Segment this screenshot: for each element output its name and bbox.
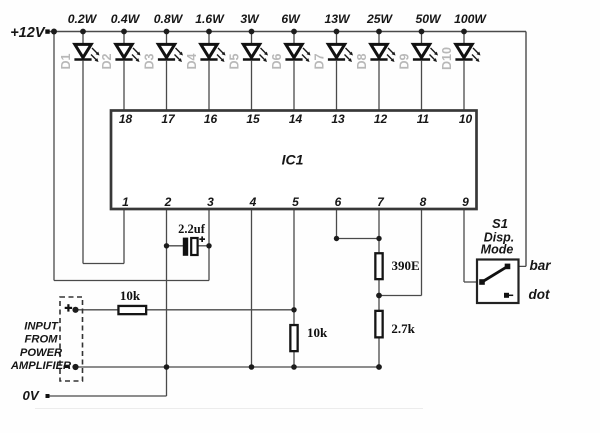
node +12V terminal <box>45 29 49 33</box>
wire D1 cathode down left side of IC <box>82 61 84 264</box>
svg-text:25W: 25W <box>366 12 394 26</box>
svg-text:50W: 50W <box>415 12 442 26</box>
wire pin 8 column down <box>421 209 423 296</box>
svg-text:14: 14 <box>289 112 303 126</box>
svg-text:Mode: Mode <box>481 243 514 257</box>
wire D8 cathode to IC pin <box>378 61 380 110</box>
LED D5 <box>243 32 268 63</box>
wire 0V up to ground rail <box>166 367 168 396</box>
node ground rail (bottom) <box>76 366 380 368</box>
node junction (294,31.5) <box>291 29 297 35</box>
svg-text:3W: 3W <box>240 12 260 26</box>
switch S1 dot contact <box>504 293 509 298</box>
input - terminal <box>64 366 70 368</box>
node junction (124,31.5) <box>121 29 127 35</box>
wire input + signal line to pin 5 node <box>76 309 295 311</box>
wire pin 6 to pin 7 link <box>337 238 380 240</box>
svg-text:dot: dot <box>529 287 550 302</box>
svg-text:1: 1 <box>122 195 129 209</box>
wire +12V branch left vertical down to pin 3 net <box>53 32 55 281</box>
LED D6 <box>285 32 310 63</box>
node junction (421.5,31.5) <box>419 29 425 35</box>
svg-text:D10: D10 <box>440 47 454 70</box>
node junction (379,367) <box>376 364 382 370</box>
node junction (209,31.5) <box>206 29 212 35</box>
svg-text:8: 8 <box>420 195 427 209</box>
wire pin 5 column down to ground rail <box>293 209 295 367</box>
node junction (209,245.8) <box>206 243 211 248</box>
svg-text:0.4W: 0.4W <box>111 12 141 26</box>
wire D3 cathode to IC pin <box>166 61 168 110</box>
wire pin 4 column down to ground rail <box>251 209 253 367</box>
switch S1 bar contact <box>505 264 511 270</box>
node +12V supply rail (top) <box>46 31 526 33</box>
node 0V terminal <box>46 394 50 398</box>
svg-text:5: 5 <box>292 195 299 209</box>
svg-text:D5: D5 <box>228 53 242 69</box>
wire pin 9 to switch common <box>464 281 477 283</box>
svg-text:13W: 13W <box>324 12 351 26</box>
switch S1 common contact <box>479 279 485 285</box>
svg-text:+12V: +12V <box>10 25 46 41</box>
capacitor C1 2.2uf (electrolytic) <box>167 236 210 255</box>
svg-text:D3: D3 <box>143 53 157 69</box>
wire pin 3 column (V+) from IC down through capacitor node <box>208 209 210 281</box>
wire +12V branch horizontal to pin 3 column <box>54 280 209 282</box>
svg-text:D2: D2 <box>100 53 114 69</box>
svg-text:12: 12 <box>374 112 388 126</box>
svg-text:2.7k: 2.7k <box>391 321 415 336</box>
svg-text:INPUT: INPUT <box>24 321 59 333</box>
svg-text:15: 15 <box>246 112 260 126</box>
svg-text:6W: 6W <box>281 12 301 26</box>
svg-text:1.6W: 1.6W <box>195 12 225 26</box>
node junction (464,31.5) <box>461 29 467 35</box>
svg-text:D6: D6 <box>270 53 284 69</box>
switch S1 Disp. Mode body <box>477 260 519 304</box>
node junction (251.5,31.5) <box>249 29 255 35</box>
node junction (379,238.5) <box>376 236 381 241</box>
svg-text:FROM: FROM <box>25 334 59 346</box>
wire +12V rail down right side to switch bar contact <box>525 32 527 267</box>
wire pin 2 column down to ground rail <box>166 209 168 367</box>
svg-text:10k: 10k <box>120 288 141 303</box>
node junction (54,31.5) <box>51 29 57 35</box>
LED D8 <box>370 32 395 63</box>
wire switch bar contact to +12V rail <box>508 265 527 267</box>
node junction (294,367) <box>291 364 297 370</box>
svg-text:0.2W: 0.2W <box>68 12 98 26</box>
wire D10 cathode to IC pin <box>463 61 465 110</box>
svg-text:POWER: POWER <box>20 347 62 359</box>
svg-text:D4: D4 <box>185 53 199 69</box>
svg-text:AMPLIFIER: AMPLIFIER <box>10 360 71 372</box>
svg-text:10: 10 <box>459 112 473 126</box>
svg-text:0V: 0V <box>23 388 40 403</box>
node junction (166.5,31.5) <box>164 29 170 35</box>
svg-text:16: 16 <box>204 112 218 126</box>
LED D2 <box>115 32 140 63</box>
svg-text:bar: bar <box>530 258 552 273</box>
wire D9 cathode to IC pin <box>421 61 423 110</box>
LED D7 <box>328 32 353 63</box>
node junction (336.5,31.5) <box>334 29 340 35</box>
node junction (166.5,245.8) <box>164 243 169 248</box>
svg-text:17: 17 <box>161 112 176 126</box>
switch S1 lever <box>482 266 508 282</box>
svg-text:11: 11 <box>417 112 430 126</box>
svg-text:13: 13 <box>331 112 345 126</box>
wire D1 horizontal to pin 1 column <box>83 263 124 265</box>
node junction (379,295.5) <box>376 293 382 299</box>
svg-text:6: 6 <box>335 195 342 209</box>
svg-text:3: 3 <box>207 195 214 209</box>
wire pin 1 stub up to IC <box>123 209 125 264</box>
wire pin 9 column down <box>463 209 465 282</box>
wire pin 7 column down through resistors to ground rail <box>378 209 380 367</box>
node junction (294,309.8) <box>291 307 296 312</box>
svg-text:100W: 100W <box>454 12 487 26</box>
svg-text:2: 2 <box>164 195 172 209</box>
svg-text:D8: D8 <box>355 53 369 69</box>
svg-text:D7: D7 <box>313 53 327 69</box>
svg-text:2.2uf: 2.2uf <box>178 222 206 236</box>
svg-text:0.8W: 0.8W <box>154 12 184 26</box>
wire 0V terminal line <box>50 395 167 397</box>
wire D4 cathode to IC pin <box>208 61 210 110</box>
svg-text:S1: S1 <box>492 216 508 231</box>
LED D9 <box>413 32 438 63</box>
node junction (336.5,238.5) <box>334 236 339 241</box>
node junction (251.5,367) <box>249 364 255 370</box>
LED D1 <box>74 32 99 63</box>
svg-text:D9: D9 <box>398 53 412 69</box>
svg-text:390E: 390E <box>392 258 420 273</box>
LED D4 <box>200 32 225 63</box>
svg-text:IC1: IC1 <box>282 152 304 168</box>
op-amp IC1 (bar-graph driver) body <box>111 111 477 210</box>
resistor 10k (pin 5 to ground) <box>290 325 297 351</box>
input source dashed box <box>60 297 83 381</box>
svg-text:D1: D1 <box>59 53 73 69</box>
wire D2 cathode to IC pin <box>123 61 125 110</box>
resistor 10k (input series) <box>118 306 146 314</box>
resistor 390E <box>375 253 382 279</box>
wire D6 cathode to IC pin <box>293 61 295 110</box>
wire pin 8 left to 390E/2.7k junction <box>379 295 422 297</box>
input + terminal <box>67 304 69 311</box>
LED D10 <box>455 32 480 63</box>
svg-text:4: 4 <box>249 195 257 209</box>
resistor 2.7k <box>375 311 382 338</box>
svg-text:9: 9 <box>462 195 469 209</box>
wire pin 6 stub down <box>336 209 338 239</box>
wire faint artifact line bottom <box>35 408 423 410</box>
LED D3 <box>158 32 183 63</box>
node junction (379,31.5) <box>376 29 382 35</box>
node junction (166.5,367) <box>164 364 170 370</box>
wire D7 cathode to IC pin <box>336 61 338 110</box>
svg-text:10k: 10k <box>307 325 328 340</box>
svg-text:18: 18 <box>119 112 133 126</box>
wire D5 cathode to IC pin <box>251 61 253 110</box>
node junction (83,31.5) <box>80 29 86 35</box>
